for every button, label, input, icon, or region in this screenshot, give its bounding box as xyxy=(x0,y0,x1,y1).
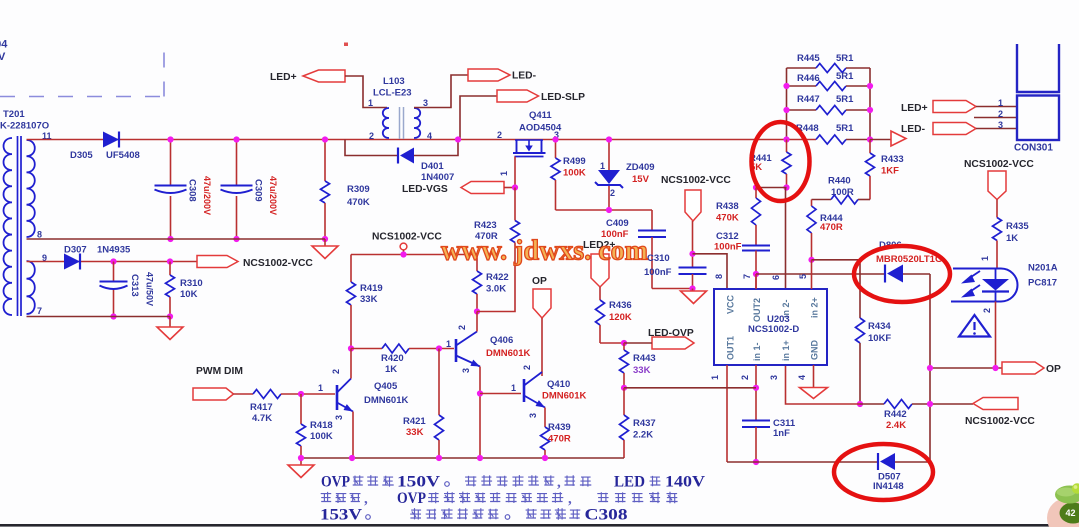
transformer T201 label xyxy=(0,109,49,132)
svg-text:OP: OP xyxy=(532,276,547,287)
svg-text:6: 6 xyxy=(771,275,781,280)
svg-text:LED: LED xyxy=(614,474,645,491)
diode D507 xyxy=(873,453,904,492)
flag LED+ xyxy=(270,70,345,83)
stray red speck xyxy=(344,43,348,47)
inductor L103 xyxy=(373,76,420,139)
svg-text:R420: R420 xyxy=(381,353,404,364)
resistor R442 xyxy=(860,400,973,432)
junction R309 bottom xyxy=(322,236,328,242)
diode D401 xyxy=(398,148,454,184)
svg-text:LED-VGS: LED-VGS xyxy=(402,184,448,195)
resistor R422 xyxy=(473,255,509,312)
svg-text:,: , xyxy=(568,491,572,507)
svg-text:IN4148: IN4148 xyxy=(873,481,904,492)
svg-text:5R1: 5R1 xyxy=(836,94,854,105)
ground under R310 xyxy=(157,317,183,340)
resistor R437 xyxy=(620,388,656,458)
wire D507 to bus xyxy=(895,461,930,463)
flag OP xyxy=(1002,362,1061,375)
svg-text:C312: C312 xyxy=(716,231,739,242)
optocoupler N201A PC817 xyxy=(951,263,1058,302)
junction Q406 collector xyxy=(474,308,480,314)
svg-text:OVP: OVP xyxy=(397,490,426,507)
flag LED-OVP xyxy=(648,328,694,349)
resistor R309 xyxy=(321,140,370,240)
dashed selection box xyxy=(0,43,164,97)
svg-text:33K: 33K xyxy=(633,365,651,376)
resistor R446 xyxy=(787,71,871,91)
svg-text:R417: R417 xyxy=(250,402,273,413)
flag LED+ (output) xyxy=(901,101,976,115)
junction gate/VGS xyxy=(512,184,518,190)
svg-text:DMN601K: DMN601K xyxy=(364,395,408,406)
junction C311 bottom xyxy=(753,459,759,465)
svg-text:100K: 100K xyxy=(310,431,333,442)
green emoticon bottom right xyxy=(1047,483,1079,532)
svg-text:UF5408: UF5408 xyxy=(106,150,140,161)
junction C310 bottom xyxy=(689,285,695,291)
svg-text:2: 2 xyxy=(740,375,750,380)
svg-text:7: 7 xyxy=(37,306,42,316)
transistor Q410 xyxy=(524,372,586,408)
junction R310 top xyxy=(167,258,173,264)
svg-text:R439: R439 xyxy=(548,422,571,433)
highlight circle R441 xyxy=(752,122,810,201)
svg-text:R419: R419 xyxy=(360,283,383,294)
svg-text:LED-: LED- xyxy=(901,124,926,135)
transistor Q406 xyxy=(456,332,530,367)
junction R438 top xyxy=(753,184,759,190)
flag NCS1002-VCC (R442) xyxy=(965,398,1035,428)
flag LED- xyxy=(468,69,537,82)
wire to LED-OVP flag xyxy=(624,342,652,344)
svg-text:OP: OP xyxy=(1046,364,1061,375)
resistor R438 xyxy=(716,188,761,246)
flag LED- (output) xyxy=(901,123,976,136)
svg-text:NCS1002-VCC: NCS1002-VCC xyxy=(965,416,1035,427)
diode D806 MBR0520LT1G xyxy=(876,240,942,283)
resistor R436 xyxy=(596,287,632,343)
junction C313 top xyxy=(110,258,116,264)
svg-text:R445: R445 xyxy=(797,53,820,64)
svg-text:5R1: 5R1 xyxy=(836,53,854,64)
wire OP net xyxy=(930,367,1002,369)
svg-text:R437: R437 xyxy=(633,418,656,429)
svg-text:R434: R434 xyxy=(868,321,891,332)
svg-text:PC817: PC817 xyxy=(1028,278,1057,289)
wire main output net xyxy=(27,139,871,141)
wire winding pin 9 xyxy=(27,261,198,263)
annotation text OVP line2 xyxy=(321,490,678,507)
svg-text:DMN601K: DMN601K xyxy=(486,348,530,359)
junction C309 top xyxy=(233,136,239,142)
wire R441 node to U203 pin6 xyxy=(785,188,787,290)
resistor R423 xyxy=(474,188,520,243)
svg-text:R418: R418 xyxy=(310,420,333,431)
svg-text:LED-: LED- xyxy=(512,71,537,82)
flag LED-VGS xyxy=(402,182,504,196)
junction OP/bus xyxy=(927,365,933,371)
svg-text:OVP: OVP xyxy=(321,474,350,491)
junction NCS circle xyxy=(400,251,406,257)
svg-text:1nF: 1nF xyxy=(773,428,790,439)
junction VCC node xyxy=(689,251,695,257)
junction R419/R420 xyxy=(348,345,354,351)
svg-text:C308: C308 xyxy=(585,507,628,524)
svg-text:2: 2 xyxy=(331,369,341,374)
connector CON301 xyxy=(1014,44,1059,154)
resistor R444 xyxy=(807,200,843,260)
svg-text:R442: R442 xyxy=(884,409,907,420)
svg-text:140V: 140V xyxy=(665,474,706,491)
resistor R445 xyxy=(787,53,871,73)
wire CON301 pin2 xyxy=(974,117,1016,119)
svg-text:NCS1002-VCC: NCS1002-VCC xyxy=(661,175,731,186)
highlight circle D507 xyxy=(834,444,933,500)
svg-text:7: 7 xyxy=(742,274,752,279)
svg-text:470K: 470K xyxy=(347,197,370,208)
svg-text:3.0K: 3.0K xyxy=(486,284,506,295)
svg-text:5: 5 xyxy=(798,274,808,279)
junction rail R439 xyxy=(542,455,548,461)
junction rail Q405 xyxy=(349,455,355,461)
svg-text:5R1: 5R1 xyxy=(836,71,854,82)
U203 pin 5 xyxy=(798,260,812,289)
junction R309 top xyxy=(322,136,328,142)
svg-text:D305: D305 xyxy=(70,150,93,161)
svg-text:R499: R499 xyxy=(563,156,586,167)
svg-text:LED+: LED+ xyxy=(901,103,928,114)
wire LED-VGS to gate xyxy=(504,187,515,189)
svg-text:47u/200V: 47u/200V xyxy=(202,176,212,215)
svg-text:Q411: Q411 xyxy=(529,110,552,121)
svg-text:1N4935: 1N4935 xyxy=(97,245,131,256)
wire VCC node to U203 pin8 xyxy=(693,254,728,289)
svg-text:R447: R447 xyxy=(797,94,820,105)
junction R446 right xyxy=(867,83,873,89)
diode D305 xyxy=(70,132,140,162)
wire VCC rail (Q405 area) xyxy=(351,254,477,256)
resistor R443 xyxy=(620,343,656,388)
junction ladder left xyxy=(783,136,789,142)
resistor R418 xyxy=(297,394,333,458)
wire Q405 collector xyxy=(350,349,352,379)
ground under R309 xyxy=(312,239,338,259)
wire D401 to node xyxy=(414,140,458,156)
svg-text:V: V xyxy=(0,51,6,63)
ground under R418 xyxy=(288,458,314,478)
svg-text:470R: 470R xyxy=(820,222,843,233)
junction C309 bottom xyxy=(233,236,239,242)
svg-text:R440: R440 xyxy=(828,176,851,187)
svg-text:1: 1 xyxy=(980,256,990,261)
wire R436 to R443 xyxy=(600,342,624,344)
wire ladder output xyxy=(870,139,891,141)
annotation text OVP line3 xyxy=(320,507,628,524)
svg-text:1: 1 xyxy=(710,375,720,380)
wire pin7 node to D806 xyxy=(756,273,885,275)
resistor R433 xyxy=(866,140,904,200)
svg-text:D401: D401 xyxy=(421,161,444,172)
svg-text:N201A: N201A xyxy=(1028,263,1058,274)
svg-text:R421: R421 xyxy=(403,416,426,427)
svg-text:in 2+: in 2+ xyxy=(810,297,820,318)
junction ZD409 bottom xyxy=(606,207,612,213)
svg-text:1: 1 xyxy=(600,161,605,171)
resistor R310 xyxy=(166,262,203,317)
svg-text:in 1+: in 1+ xyxy=(781,340,791,361)
svg-text:R309: R309 xyxy=(347,184,370,195)
resistor R434 xyxy=(856,260,892,404)
svg-text:C409: C409 xyxy=(606,218,629,229)
resistor R447 xyxy=(787,94,871,115)
svg-text:2: 2 xyxy=(497,130,502,140)
svg-text:Q405: Q405 xyxy=(374,381,398,392)
svg-text:Q410: Q410 xyxy=(547,379,570,390)
wire LED-SLP riser xyxy=(460,96,497,140)
wire LED+ to L103 pin1 xyxy=(345,76,387,108)
svg-text:2.4K: 2.4K xyxy=(886,420,906,431)
svg-text:R436: R436 xyxy=(609,300,632,311)
svg-text:5R1: 5R1 xyxy=(836,123,854,134)
svg-text:153V: 153V xyxy=(320,507,363,524)
U203 pin 1 xyxy=(710,365,727,462)
svg-text:100nF: 100nF xyxy=(714,242,742,253)
svg-text:100K: 100K xyxy=(563,168,586,179)
wire Q406 emitter xyxy=(479,367,481,459)
U203 pin 2 xyxy=(740,365,756,421)
junction D401/LED-SLP xyxy=(455,136,461,142)
resistor R448 xyxy=(796,123,854,144)
svg-text:1: 1 xyxy=(499,171,509,176)
svg-text:LCL-E23: LCL-E23 xyxy=(373,88,412,99)
capacitor C313 xyxy=(100,262,155,317)
svg-text:K-228107O: K-228107O xyxy=(0,121,49,132)
wire Q411 gate xyxy=(514,157,516,188)
svg-text:R446: R446 xyxy=(797,73,820,84)
svg-text:2: 2 xyxy=(982,308,992,313)
wire L103 pin3 to LED- xyxy=(414,75,468,108)
svg-text:8: 8 xyxy=(37,230,42,240)
svg-text:33K: 33K xyxy=(406,427,424,438)
wire LED+ to CON301 pin1 xyxy=(976,106,1016,108)
svg-text:LED-SLP: LED-SLP xyxy=(541,92,585,103)
wire Q406 emitter to Q410 base xyxy=(480,393,521,395)
wire R441 to R438 xyxy=(756,187,787,189)
svg-text:,: , xyxy=(364,491,368,507)
svg-text:1: 1 xyxy=(998,98,1003,108)
svg-text:1: 1 xyxy=(368,98,373,108)
svg-text:2: 2 xyxy=(369,131,374,141)
resistor R419 xyxy=(347,255,383,349)
transformer T201 xyxy=(4,136,35,316)
junction pin2/R443 wire xyxy=(753,385,759,391)
junction C308 bottom xyxy=(167,236,173,242)
svg-text:4: 4 xyxy=(797,375,807,380)
flag NCS1002-VCC (pin9) xyxy=(197,256,313,270)
svg-text:3: 3 xyxy=(769,375,779,380)
svg-text:ZD409: ZD409 xyxy=(626,162,655,173)
svg-text:VCC: VCC xyxy=(726,294,736,314)
svg-text:2: 2 xyxy=(457,325,467,330)
svg-text:T201: T201 xyxy=(3,109,25,120)
svg-text:R422: R422 xyxy=(486,272,509,283)
svg-text:1: 1 xyxy=(318,383,323,393)
annotation text OVP line1 xyxy=(321,474,706,491)
wire Q405 emitter xyxy=(352,412,354,459)
terminal NCS1002-VCC circle xyxy=(372,232,442,255)
wire R423 to Q406 collector xyxy=(477,243,515,312)
wire NCS flag to C310 xyxy=(692,221,694,268)
capacitor C310 xyxy=(644,253,707,289)
resistor R417 xyxy=(234,390,336,425)
capacitor C409 xyxy=(601,210,666,289)
capacitor C312 xyxy=(714,231,770,289)
resistor R499 xyxy=(551,140,586,211)
wire node under R499/ZD409 xyxy=(556,209,653,211)
flag NCS1002-VCC (opto) xyxy=(964,159,1034,200)
junction R444/pin5 xyxy=(808,257,814,263)
junction R310 bottom xyxy=(167,313,173,319)
highlight circle D806 xyxy=(854,246,950,302)
junction ladder right xyxy=(867,136,873,142)
junction R447 right xyxy=(867,107,873,113)
ground under U203 pin4 xyxy=(800,388,828,399)
svg-text:47u/200V: 47u/200V xyxy=(268,176,278,215)
wire Q406 collector xyxy=(476,312,478,332)
flag LED2+ xyxy=(583,240,615,287)
wire D401 loop xyxy=(345,140,398,156)
transistor Q411 AOD4504 xyxy=(513,110,562,157)
resistor R441 xyxy=(749,140,791,188)
junction Q410 base branch xyxy=(477,390,483,396)
svg-text:42: 42 xyxy=(1066,508,1076,518)
svg-text:150V: 150V xyxy=(397,474,441,491)
svg-text:2: 2 xyxy=(610,188,615,198)
wire opto pin2 down xyxy=(995,302,997,369)
warning triangle xyxy=(959,315,990,337)
svg-text:1K: 1K xyxy=(385,364,397,375)
wire ladder left bus xyxy=(786,68,788,140)
svg-text:3: 3 xyxy=(998,120,1003,130)
svg-text:2: 2 xyxy=(522,365,532,370)
svg-text:R443: R443 xyxy=(633,353,656,364)
junction R421 top xyxy=(436,345,442,351)
wire vertical bus x930 xyxy=(929,274,931,462)
resistor R440 xyxy=(812,176,871,205)
svg-text:NCS1002-VCC: NCS1002-VCC xyxy=(372,232,442,243)
wire LED- to CON301 pin3 xyxy=(976,128,1016,130)
wire winding pin 8 rail xyxy=(27,238,326,240)
svg-text:in 1-: in 1- xyxy=(752,342,762,361)
svg-text:R423: R423 xyxy=(474,220,497,231)
junction R443 top xyxy=(621,340,627,346)
flag LED-SLP xyxy=(497,90,585,103)
svg-text:1: 1 xyxy=(511,383,516,393)
svg-text:LED+: LED+ xyxy=(270,72,297,83)
bottom border line xyxy=(0,524,1079,527)
svg-text:DMN601K: DMN601K xyxy=(542,391,586,402)
junction R443/R437 xyxy=(621,385,627,391)
svg-text:C309: C309 xyxy=(253,179,264,202)
svg-text:304: 304 xyxy=(0,39,8,51)
svg-text:Q406: Q406 xyxy=(490,335,513,346)
wire R443 node to U203 pin2 xyxy=(624,387,756,389)
wire OUT1 to D507 xyxy=(727,461,878,463)
wire bottom ground rail xyxy=(301,457,624,459)
svg-text:C308: C308 xyxy=(187,179,198,202)
svg-text:3: 3 xyxy=(423,98,428,108)
svg-text:4: 4 xyxy=(427,131,432,141)
svg-text:NCS1002-D: NCS1002-D xyxy=(748,324,799,335)
junction R441 bottom xyxy=(783,184,789,190)
flag OP (Q410) xyxy=(532,276,551,318)
ground under C310 xyxy=(681,289,707,304)
arrow marker to LED- xyxy=(891,131,906,146)
svg-text:1K: 1K xyxy=(1006,233,1018,244)
wire D806 to bus xyxy=(903,273,930,275)
wire pin5 node to R434 xyxy=(812,259,861,261)
junction rail R418 xyxy=(298,455,304,461)
zener ZD409 xyxy=(595,140,655,211)
svg-text:C313: C313 xyxy=(129,274,140,297)
svg-text:2.2K: 2.2K xyxy=(633,430,653,441)
svg-text:R310: R310 xyxy=(180,278,203,289)
svg-text:GND: GND xyxy=(810,340,820,361)
svg-text:L103: L103 xyxy=(383,76,405,87)
svg-text:100R: 100R xyxy=(831,187,854,198)
capacitor C309 xyxy=(221,140,279,240)
svg-text:NCS1002-VCC: NCS1002-VCC xyxy=(964,159,1034,170)
svg-text:8: 8 xyxy=(714,274,724,279)
svg-text:120K: 120K xyxy=(609,312,632,323)
svg-text:470R: 470R xyxy=(548,434,571,445)
resistor R439 xyxy=(541,408,571,459)
svg-text:OUT2: OUT2 xyxy=(752,298,762,322)
junction R434 bottom xyxy=(857,401,863,407)
svg-text:3: 3 xyxy=(334,415,344,420)
svg-text:www. jdwxs. com: www. jdwxs. com xyxy=(441,235,648,267)
junction R446 left xyxy=(783,83,789,89)
svg-text:3: 3 xyxy=(528,413,538,418)
wire C409 bottom to C310 xyxy=(652,288,693,290)
resistor R435 xyxy=(993,200,1030,270)
flag NCS1002-VCC (over C310) xyxy=(661,175,731,221)
wire OP to Q410 collector xyxy=(541,318,543,376)
wire ladder right bus xyxy=(869,68,871,140)
svg-text:15V: 15V xyxy=(632,174,650,185)
junction rail Q406 xyxy=(477,455,483,461)
svg-text:PWM DIM: PWM DIM xyxy=(196,366,243,377)
svg-text:100nF: 100nF xyxy=(644,267,672,278)
svg-text:1KF: 1KF xyxy=(881,166,899,177)
transistor Q405 xyxy=(337,379,408,412)
junction C308 top xyxy=(167,136,173,142)
svg-text:C310: C310 xyxy=(647,253,670,264)
diode D307 xyxy=(64,245,131,270)
partial text top-left xyxy=(0,39,8,64)
junction R447 left xyxy=(783,107,789,113)
svg-text:10K: 10K xyxy=(180,289,198,300)
svg-text:3: 3 xyxy=(461,368,471,373)
resistor R421 xyxy=(403,349,444,459)
junction R417/R418/base xyxy=(298,391,304,397)
svg-text:33K: 33K xyxy=(360,294,378,305)
svg-text:NCS1002-VCC: NCS1002-VCC xyxy=(243,258,313,269)
svg-text:1: 1 xyxy=(446,339,451,349)
flag PWM DIM xyxy=(193,366,243,400)
